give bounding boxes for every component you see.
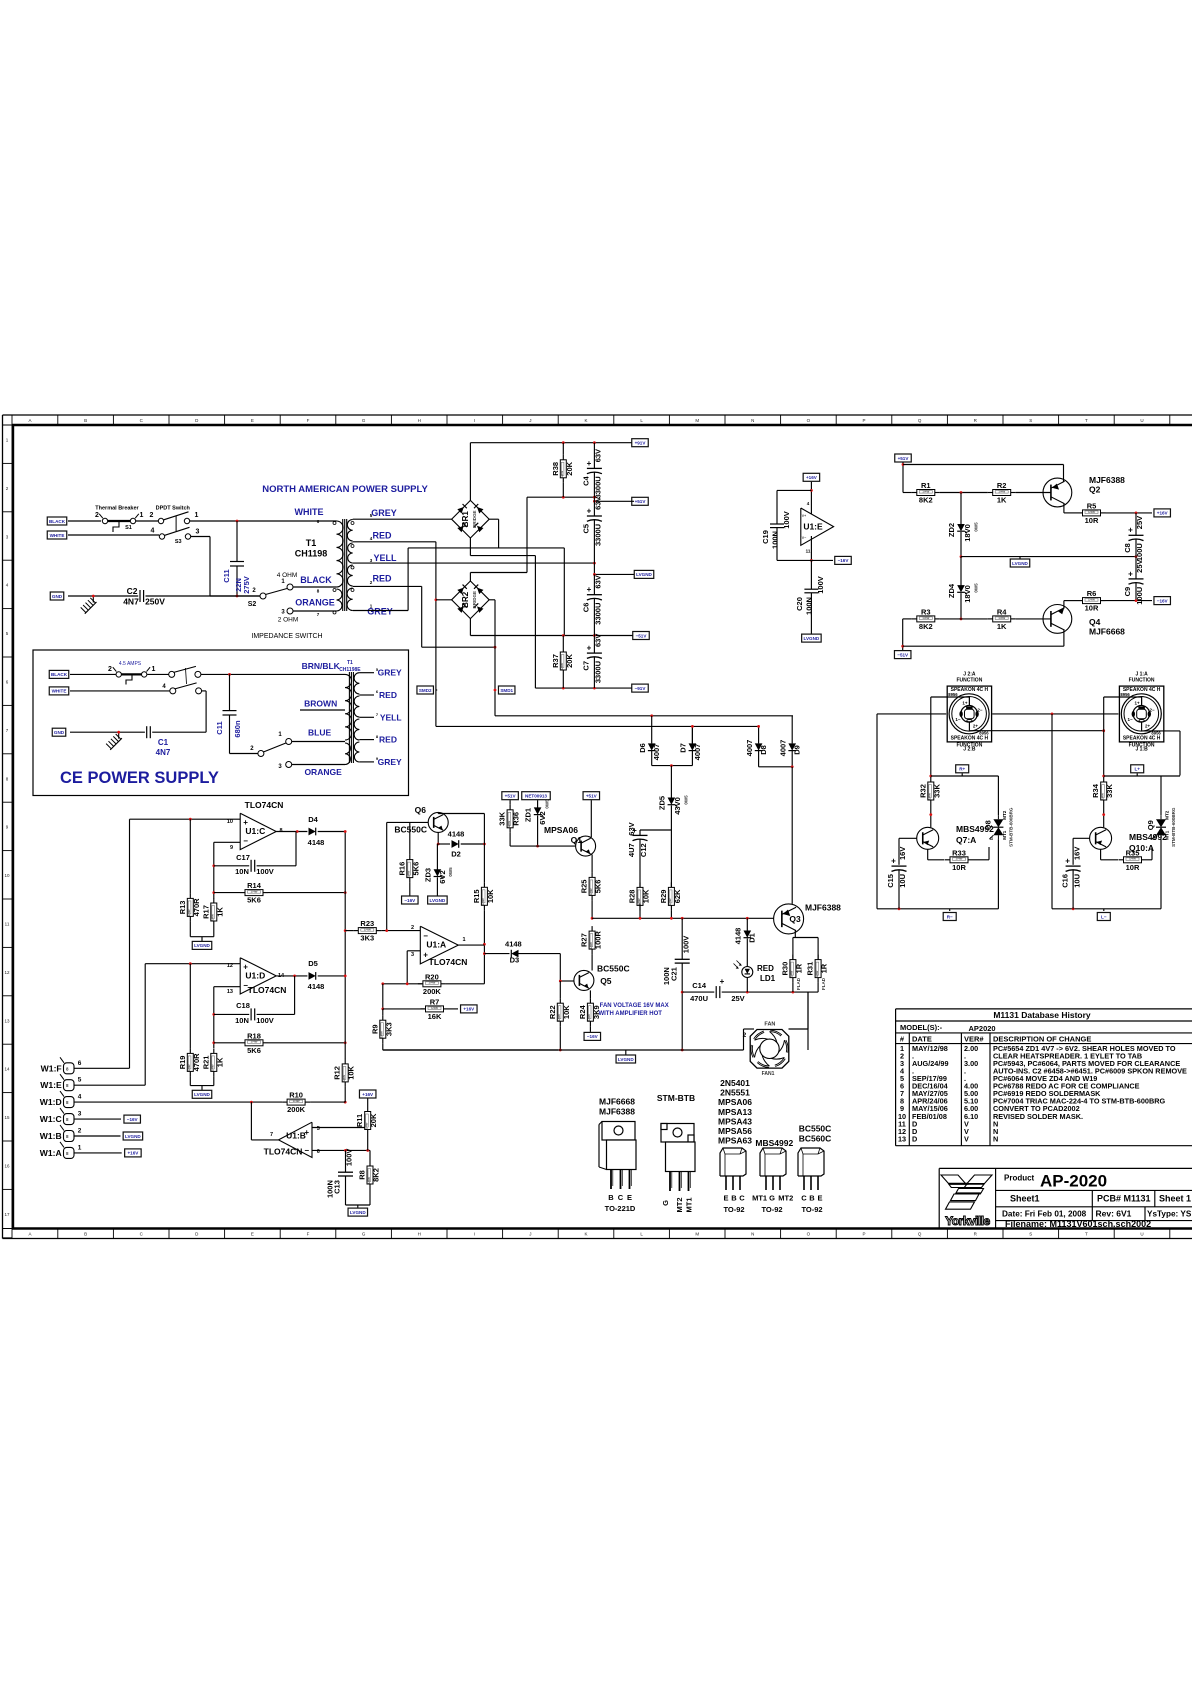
svg-text:1/4W: 1/4W — [365, 1122, 369, 1129]
svg-text:E: E — [251, 418, 254, 423]
svg-text:P: P — [862, 418, 865, 423]
svg-text:J: J — [529, 418, 531, 423]
svg-text:C17: C17 — [236, 853, 250, 862]
svg-text:S: S — [1029, 1232, 1032, 1237]
svg-text:2.00: 2.00 — [964, 1044, 978, 1053]
svg-text:PCB# M1131: PCB# M1131 — [1097, 1194, 1151, 1204]
svg-text:TLO74CN: TLO74CN — [245, 800, 284, 810]
svg-text:200K: 200K — [423, 987, 442, 996]
svg-text:BLACK: BLACK — [51, 672, 68, 677]
svg-text:FAN VOLTAGE 16V MAX: FAN VOLTAGE 16V MAX — [600, 1003, 669, 1009]
svg-text:CH1198: CH1198 — [295, 549, 328, 559]
svg-text:+: + — [1128, 526, 1133, 535]
svg-text:YELL: YELL — [373, 553, 397, 563]
svg-text:R21: R21 — [201, 1056, 210, 1070]
svg-text:1/4W: 1/4W — [342, 1075, 346, 1082]
svg-text:1−: 1− — [955, 717, 961, 722]
svg-text:U1:B: U1:B — [286, 1131, 306, 1141]
svg-text:MAY/12/98: MAY/12/98 — [912, 1044, 948, 1053]
svg-text:STM-BTB-600BRG: STM-BTB-600BRG — [1171, 807, 1176, 847]
svg-text:MBS4992: MBS4992 — [755, 1138, 793, 1148]
svg-text:100V: 100V — [256, 1016, 274, 1025]
svg-text:−91V: −91V — [635, 686, 647, 691]
svg-text:P: P — [862, 1232, 865, 1237]
svg-text:1/4W: 1/4W — [587, 1014, 591, 1021]
svg-text:BRIDGE: BRIDGE — [472, 591, 477, 609]
svg-text:MT2: MT2 — [1002, 810, 1007, 819]
svg-text:R10: R10 — [289, 1091, 303, 1100]
svg-text:10N: 10N — [235, 867, 249, 876]
svg-text:0W5: 0W5 — [684, 795, 689, 805]
svg-text:470R: 470R — [192, 898, 201, 917]
svg-text:V: V — [964, 1134, 969, 1143]
svg-text:1: 1 — [462, 937, 465, 943]
svg-text:680n: 680n — [233, 720, 242, 738]
svg-text:1/4W: 1/4W — [557, 1014, 561, 1021]
svg-text:YsType: YS: YsType: YS — [1147, 1210, 1192, 1219]
svg-text:T: T — [1085, 418, 1088, 423]
svg-text:Thermal Breaker: Thermal Breaker — [95, 506, 139, 512]
svg-text:5: 5 — [317, 1126, 320, 1132]
svg-text:5K6: 5K6 — [247, 1046, 261, 1055]
svg-text:Date: Fri Feb 01, 2008: Date: Fri Feb 01, 2008 — [1002, 1210, 1087, 1219]
svg-text:TO-92: TO-92 — [723, 1205, 744, 1214]
svg-text:TLO74CN: TLO74CN — [248, 985, 287, 995]
svg-text:10K: 10K — [562, 1005, 571, 1019]
svg-text:R8: R8 — [358, 1170, 367, 1180]
svg-text:1/4W: 1/4W — [790, 970, 794, 977]
svg-text:CE POWER SUPPLY: CE POWER SUPPLY — [60, 769, 219, 787]
svg-text:Product: Product — [1004, 1174, 1035, 1183]
svg-text:1/4W: 1/4W — [589, 942, 593, 949]
svg-text:BC560C: BC560C — [799, 1134, 832, 1144]
svg-text:RED: RED — [379, 735, 397, 745]
svg-text:W1:B: W1:B — [40, 1131, 62, 1141]
svg-text:1/4W: 1/4W — [560, 471, 564, 478]
svg-text:W1:A: W1:A — [40, 1148, 62, 1158]
svg-text:R35: R35 — [1126, 848, 1140, 857]
svg-text:W1:C: W1:C — [40, 1114, 62, 1124]
svg-text:A: A — [28, 418, 31, 423]
svg-text:H: H — [418, 1232, 421, 1237]
svg-text:SMD2: SMD2 — [419, 688, 432, 693]
svg-text:R22: R22 — [548, 1005, 557, 1019]
svg-text:1K: 1K — [215, 1057, 224, 1067]
svg-text:1/4W: 1/4W — [928, 793, 932, 800]
svg-text:LD1: LD1 — [760, 974, 776, 983]
svg-text:8956: 8956 — [948, 692, 958, 697]
svg-text:10R: 10R — [1126, 863, 1140, 872]
svg-text:+: + — [587, 585, 592, 594]
svg-text:D6: D6 — [638, 743, 647, 753]
svg-text:J 2:A: J 2:A — [963, 672, 976, 678]
svg-text:Q5: Q5 — [600, 976, 612, 986]
svg-text:O: O — [807, 1232, 811, 1237]
svg-text:DATE: DATE — [912, 1035, 932, 1044]
svg-text:MJF6388: MJF6388 — [1089, 475, 1125, 485]
svg-text:2: 2 — [150, 512, 154, 519]
svg-text:H: H — [418, 418, 421, 423]
svg-text:G: G — [769, 1194, 775, 1203]
svg-text:VER#: VER# — [964, 1035, 984, 1044]
svg-text:N: N — [993, 1134, 998, 1143]
svg-text:1: 1 — [78, 1144, 82, 1151]
svg-text:8K2: 8K2 — [372, 1168, 381, 1182]
svg-text:BLUE: BLUE — [308, 728, 331, 738]
svg-text:LVGND: LVGND — [636, 572, 652, 577]
svg-text:R16: R16 — [397, 862, 406, 876]
svg-text:F: F — [307, 1232, 310, 1237]
svg-text:Q2: Q2 — [1089, 485, 1101, 495]
svg-text:R32: R32 — [918, 784, 927, 798]
svg-text:MT2: MT2 — [675, 1198, 684, 1213]
svg-text:FAN: FAN — [764, 1022, 775, 1028]
svg-text:Q3: Q3 — [789, 914, 801, 924]
svg-text:20K: 20K — [565, 654, 574, 668]
svg-text:4148: 4148 — [308, 838, 325, 847]
svg-text:2+: 2+ — [973, 724, 979, 729]
svg-text:GND: GND — [54, 730, 65, 735]
svg-text:TLO74CN: TLO74CN — [429, 957, 468, 967]
svg-text:GND: GND — [52, 594, 63, 599]
svg-text:MPSA56: MPSA56 — [718, 1126, 752, 1136]
svg-text:25V: 25V — [1135, 516, 1144, 529]
svg-text:D7: D7 — [679, 743, 688, 753]
svg-text:4 OHM: 4 OHM — [277, 572, 298, 579]
svg-text:B: B — [608, 1193, 614, 1202]
svg-text:3: 3 — [78, 1111, 82, 1118]
svg-text:MPSA06: MPSA06 — [718, 1097, 752, 1107]
svg-text:33K: 33K — [1105, 784, 1114, 798]
svg-text:R33: R33 — [952, 848, 966, 857]
svg-text:10R: 10R — [1085, 604, 1099, 613]
svg-text:0W5: 0W5 — [974, 583, 979, 593]
svg-text:2N5551: 2N5551 — [720, 1088, 750, 1098]
svg-text:AP-2020: AP-2020 — [1040, 1172, 1107, 1191]
svg-text:W1:F: W1:F — [41, 1063, 62, 1073]
svg-text:+16V: +16V — [806, 475, 818, 480]
svg-text:R36: R36 — [512, 812, 521, 826]
svg-text:MT1: MT1 — [1165, 830, 1170, 839]
svg-text:ZD4: ZD4 — [947, 583, 956, 598]
svg-text:4148: 4148 — [733, 928, 742, 945]
svg-text:STM-BTB-600BRG: STM-BTB-600BRG — [1008, 807, 1013, 847]
svg-text:10R: 10R — [1085, 516, 1099, 525]
svg-text:MT2: MT2 — [1165, 810, 1170, 819]
svg-text:I: I — [474, 418, 475, 423]
svg-text:D8: D8 — [759, 745, 768, 755]
svg-text:4007: 4007 — [693, 744, 702, 761]
svg-text:4148: 4148 — [448, 830, 465, 839]
svg-text:E: E — [251, 1232, 254, 1237]
svg-text:D4: D4 — [308, 815, 318, 824]
svg-text:2: 2 — [95, 512, 99, 519]
svg-text:8K2: 8K2 — [919, 622, 933, 631]
svg-text:Q: Q — [918, 418, 922, 423]
svg-text:1/4W: 1/4W — [367, 1177, 371, 1184]
svg-text:R18: R18 — [247, 1031, 261, 1040]
svg-text:MPSA43: MPSA43 — [718, 1116, 752, 1126]
svg-text:1/4W: 1/4W — [211, 914, 215, 921]
svg-text:GREY: GREY — [378, 668, 402, 678]
svg-text:N: N — [751, 1232, 754, 1237]
svg-text:10: 10 — [227, 819, 233, 825]
svg-text:Sheet1: Sheet1 — [1010, 1194, 1040, 1204]
svg-text:LVGND: LVGND — [804, 636, 820, 641]
svg-text:LVGND: LVGND — [350, 1210, 366, 1215]
svg-text:Q: Q — [918, 1232, 922, 1237]
svg-text:4N7: 4N7 — [156, 748, 171, 757]
svg-text:+51V: +51V — [635, 499, 647, 504]
svg-text:C20: C20 — [795, 597, 804, 611]
svg-text:B: B — [731, 1194, 737, 1203]
svg-text:2: 2 — [78, 1128, 82, 1135]
svg-text:ZD5: ZD5 — [658, 796, 667, 810]
svg-text:Rev: 6V1: Rev: 6V1 — [1096, 1209, 1132, 1219]
svg-text:S2: S2 — [248, 601, 257, 608]
svg-text:T1: T1 — [347, 660, 353, 666]
svg-text:WHITE: WHITE — [295, 507, 324, 517]
svg-text:R30: R30 — [780, 962, 789, 976]
svg-text:1/4W: 1/4W — [922, 489, 929, 493]
svg-text:1/4W: 1/4W — [998, 489, 1005, 493]
svg-text:R38: R38 — [551, 462, 560, 476]
svg-text:D3: D3 — [510, 955, 520, 964]
svg-text:Q6: Q6 — [415, 805, 427, 815]
svg-text:13: 13 — [227, 989, 233, 995]
svg-text:1K: 1K — [215, 907, 224, 917]
svg-text:L−: L− — [1101, 914, 1107, 919]
svg-text:SMD1: SMD1 — [500, 688, 513, 693]
svg-text:MJF6668: MJF6668 — [1089, 627, 1125, 637]
svg-text:62K: 62K — [673, 889, 682, 903]
svg-text:W1:D: W1:D — [40, 1097, 62, 1107]
svg-text:C6: C6 — [582, 603, 591, 613]
svg-text:63V: 63V — [594, 449, 603, 462]
svg-text:2−: 2− — [977, 708, 983, 713]
svg-text:RED: RED — [372, 531, 392, 541]
svg-text:20K: 20K — [369, 1113, 378, 1127]
svg-text:10N: 10N — [235, 1016, 249, 1025]
svg-text:V−: V− — [802, 536, 806, 540]
svg-text:ZD2: ZD2 — [947, 523, 956, 537]
svg-text:2 OHM: 2 OHM — [278, 617, 299, 624]
svg-text:MODEL(S):-: MODEL(S):- — [900, 1023, 943, 1032]
svg-text:5: 5 — [78, 1077, 82, 1084]
svg-text:1: 1 — [195, 512, 199, 519]
svg-text:+: + — [1065, 857, 1070, 866]
svg-text:RED: RED — [372, 574, 392, 584]
svg-text:63V: 63V — [594, 497, 603, 510]
svg-text:BC550C: BC550C — [394, 825, 427, 835]
svg-text:G: G — [661, 1200, 670, 1206]
svg-text:C14: C14 — [692, 981, 707, 990]
svg-text:R9: R9 — [370, 1024, 379, 1034]
svg-text:−51V: −51V — [636, 633, 648, 638]
svg-text:Yorkville: Yorkville — [945, 1214, 990, 1228]
svg-text:R28: R28 — [628, 890, 637, 904]
svg-text:T1: T1 — [306, 538, 317, 548]
svg-text:1/4W: 1/4W — [507, 821, 511, 828]
svg-text:Q7:A: Q7:A — [956, 835, 976, 845]
svg-text:33K: 33K — [498, 811, 507, 825]
svg-text:+: + — [587, 459, 592, 468]
svg-text:NET00913: NET00913 — [525, 794, 547, 799]
svg-text:GREY: GREY — [378, 757, 402, 767]
svg-text:DPDT Switch: DPDT Switch — [156, 506, 191, 512]
svg-text:12: 12 — [227, 963, 233, 969]
svg-text:−: − — [243, 837, 248, 846]
svg-text:C: C — [739, 1194, 745, 1203]
svg-text:13: 13 — [898, 1134, 906, 1143]
svg-text:+16V: +16V — [362, 1092, 374, 1097]
svg-text:DESCRIPTION OF CHANGE: DESCRIPTION OF CHANGE — [993, 1035, 1091, 1044]
svg-text:D2: D2 — [451, 850, 461, 859]
svg-text:16V: 16V — [898, 847, 907, 860]
svg-text:M: M — [695, 418, 699, 423]
svg-text:D: D — [912, 1134, 917, 1143]
svg-text:R34: R34 — [1091, 783, 1100, 798]
svg-text:J 1:A: J 1:A — [1135, 672, 1148, 678]
svg-text:−16V: −16V — [1157, 598, 1169, 603]
svg-text:R1: R1 — [921, 481, 931, 490]
svg-text:0W5: 0W5 — [545, 799, 550, 809]
svg-text:Q9: Q9 — [1146, 820, 1155, 830]
svg-text:100V: 100V — [681, 936, 690, 954]
svg-text:BC550C: BC550C — [799, 1124, 832, 1134]
svg-text:C4: C4 — [582, 475, 591, 485]
svg-text:NORTH AMERICAN POWER SUPPLY: NORTH AMERICAN POWER SUPPLY — [262, 484, 428, 495]
svg-text:C9: C9 — [1123, 587, 1132, 597]
svg-text:TO-221D: TO-221D — [605, 1204, 636, 1213]
svg-text:100V: 100V — [256, 867, 274, 876]
svg-text:+: + — [720, 977, 725, 986]
svg-text:100V: 100V — [345, 1149, 354, 1167]
svg-text:R2: R2 — [997, 481, 1007, 490]
svg-text:D1: D1 — [748, 933, 757, 943]
svg-text:+: + — [423, 951, 428, 960]
svg-text:14: 14 — [4, 1067, 10, 1072]
svg-text:MPSA06: MPSA06 — [544, 825, 578, 835]
svg-text:O: O — [807, 418, 811, 423]
svg-text:5K6: 5K6 — [594, 880, 603, 894]
svg-text:−16V: −16V — [838, 558, 850, 563]
svg-text:E: E — [817, 1194, 822, 1203]
svg-text:10K: 10K — [347, 1065, 356, 1079]
svg-text:200K: 200K — [287, 1105, 306, 1114]
svg-text:WHITE: WHITE — [50, 533, 65, 538]
svg-text:FAN1: FAN1 — [762, 1071, 775, 1077]
svg-text:1/4W: 1/4W — [407, 870, 411, 877]
svg-text:C16: C16 — [1060, 874, 1069, 888]
svg-text:C8: C8 — [1123, 543, 1132, 553]
svg-text:20K: 20K — [565, 461, 574, 475]
svg-text:R27: R27 — [580, 933, 589, 947]
svg-text:+: + — [587, 644, 592, 653]
svg-text:AP2020: AP2020 — [969, 1024, 996, 1033]
svg-text:−16V: −16V — [587, 1034, 599, 1039]
svg-text:BLACK: BLACK — [49, 519, 66, 524]
svg-text:+16V: +16V — [463, 1007, 475, 1012]
svg-text:−16V: −16V — [127, 1117, 139, 1122]
svg-text:2N5401: 2N5401 — [720, 1078, 750, 1088]
svg-text:CH1198E: CH1198E — [339, 667, 361, 673]
svg-text:−: − — [304, 1146, 309, 1155]
svg-text:RED: RED — [379, 690, 397, 700]
svg-text:GREY: GREY — [371, 508, 397, 518]
svg-text:+51V: +51V — [505, 794, 517, 799]
svg-text:C: C — [618, 1193, 624, 1202]
svg-text:S1: S1 — [125, 525, 132, 531]
svg-text:BR2: BR2 — [461, 591, 470, 608]
svg-text:TLO74CN: TLO74CN — [264, 1147, 303, 1157]
svg-text:S3: S3 — [175, 539, 182, 545]
svg-text:R13: R13 — [178, 901, 187, 915]
svg-text:S: S — [1029, 418, 1032, 423]
svg-text:BROWN: BROWN — [304, 698, 337, 708]
svg-text:C: C — [801, 1194, 807, 1203]
svg-text:C11: C11 — [222, 569, 231, 582]
svg-text:C18: C18 — [236, 1001, 250, 1010]
svg-text:REVISED SOLDER MASK.: REVISED SOLDER MASK. — [993, 1112, 1083, 1121]
svg-text:U1:C: U1:C — [245, 826, 265, 836]
svg-text:Q4: Q4 — [1089, 617, 1101, 627]
svg-text:2: 2 — [411, 925, 414, 931]
svg-text:1/4W: 1/4W — [1101, 793, 1105, 800]
svg-text:6V2: 6V2 — [438, 870, 447, 883]
svg-text:T: T — [1085, 1232, 1088, 1237]
svg-text:6V2: 6V2 — [538, 811, 547, 824]
svg-text:18V0: 18V0 — [963, 585, 972, 603]
svg-text:R37: R37 — [551, 654, 560, 668]
svg-text:16K: 16K — [428, 1012, 442, 1021]
svg-text:4148: 4148 — [308, 982, 325, 991]
svg-text:G: G — [362, 1232, 366, 1237]
svg-text:U1:A: U1:A — [426, 940, 446, 950]
svg-text:U1:E: U1:E — [803, 522, 823, 532]
svg-text:1R: 1R — [820, 963, 829, 973]
svg-text:R12: R12 — [333, 1066, 342, 1080]
svg-text:43V0: 43V0 — [673, 797, 682, 815]
svg-text:+51V: +51V — [586, 794, 598, 799]
svg-text:8K2: 8K2 — [919, 496, 933, 505]
svg-text:TO-92: TO-92 — [801, 1205, 822, 1214]
svg-text:D5: D5 — [308, 959, 318, 968]
svg-text:R11: R11 — [355, 1114, 364, 1127]
svg-text:1K: 1K — [997, 496, 1007, 505]
svg-text:SPEAKON 4C H: SPEAKON 4C H — [951, 736, 989, 742]
svg-text:11: 11 — [806, 549, 811, 554]
svg-text:R17: R17 — [201, 905, 210, 919]
svg-text:1: 1 — [140, 512, 144, 519]
svg-text:4007: 4007 — [652, 744, 661, 761]
svg-text:2−: 2− — [1150, 708, 1156, 713]
svg-text:ZD3: ZD3 — [424, 868, 433, 882]
svg-text:Sheet 1: Sheet 1 — [1159, 1194, 1191, 1204]
svg-text:C11: C11 — [215, 721, 224, 734]
svg-text:R14: R14 — [247, 881, 262, 890]
svg-text:MPSA63: MPSA63 — [718, 1136, 752, 1146]
svg-text:R25: R25 — [580, 880, 589, 894]
svg-text:R29: R29 — [659, 890, 668, 904]
svg-text:100R: 100R — [594, 931, 603, 950]
svg-text:25V: 25V — [731, 994, 744, 1003]
svg-text:16V: 16V — [1072, 847, 1081, 860]
svg-text:R15: R15 — [472, 889, 481, 903]
svg-text:1/4W: 1/4W — [560, 663, 564, 670]
svg-text:8956: 8956 — [1120, 692, 1130, 697]
svg-text:R19: R19 — [178, 1056, 187, 1070]
